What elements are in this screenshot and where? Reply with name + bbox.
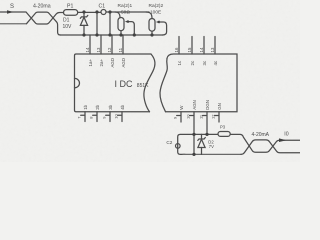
svg-text:10: 10 [185,114,190,119]
svg-text:4-20mA: 4-20mA [252,132,270,138]
svg-text:14: 14 [199,47,204,52]
svg-text:P3: P3 [220,125,226,130]
svg-text:C1: C1 [99,4,106,10]
svg-text:P1: P1 [67,4,73,10]
svg-text:GN: GN [217,103,222,110]
svg-text:DGN: DGN [205,100,210,110]
svg-text:2b: 2b [95,104,100,109]
svg-text:Ra(2)2: Ra(2)2 [149,3,164,9]
svg-text:100E: 100E [150,10,161,16]
svg-text:D1: D1 [63,18,70,24]
svg-text:AGD: AGD [110,58,115,68]
svg-text:AGD: AGD [121,58,126,68]
svg-text:2c: 2c [190,60,195,65]
svg-text:Ra(2)1: Ra(2)1 [118,3,133,9]
svg-text:13: 13 [210,47,215,52]
svg-text:4b: 4b [120,104,125,109]
svg-text:15: 15 [187,47,192,52]
svg-text:1b: 1b [83,104,88,109]
svg-text:4-20ma: 4-20ma [33,4,51,10]
svg-text:1a+: 1a+ [88,59,93,67]
svg-text:4c: 4c [213,60,218,65]
svg-text:10: 10 [113,113,118,118]
svg-text:I DC: I DC [115,79,134,89]
svg-text:I0: I0 [284,132,288,138]
svg-text:14: 14 [85,47,90,52]
svg-text:11: 11 [118,47,123,52]
svg-text:7V: 7V [209,144,214,149]
svg-text:12: 12 [210,114,215,119]
svg-text:3b: 3b [108,104,113,109]
svg-text:2a+: 2a+ [99,59,104,67]
svg-text:1c: 1c [177,60,182,65]
svg-text:AGN: AGN [192,100,197,110]
svg-text:12: 12 [107,47,112,52]
svg-text:3c: 3c [202,60,207,65]
svg-text:50Ω: 50Ω [121,10,130,16]
svg-text:10V: 10V [63,24,73,30]
svg-text:13: 13 [96,47,101,52]
svg-text:C2: C2 [166,140,172,145]
svg-text:851K: 851K [137,83,149,89]
svg-text:16: 16 [174,47,179,52]
svg-text:S: S [10,4,14,10]
